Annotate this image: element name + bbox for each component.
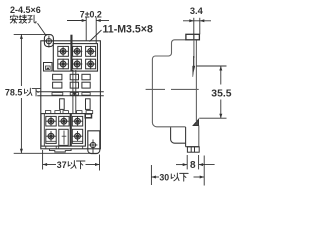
center channel vertical lines xyxy=(72,70,74,114)
screw T2 xyxy=(72,46,82,56)
svg-text:30: 30 xyxy=(159,172,169,182)
spring hook xyxy=(193,66,195,77)
bottom block cell r1c2 xyxy=(59,116,69,126)
center band lines xyxy=(37,91,104,93)
band slot C2 xyxy=(70,93,78,96)
rail hook triangle xyxy=(193,120,198,126)
rail cavity step xyxy=(171,127,186,143)
mid band rect B2 xyxy=(70,82,78,88)
dim 7±0.2 xyxy=(67,20,86,22)
side right edge upper xyxy=(195,40,197,121)
screw T5 xyxy=(72,59,82,69)
screw B1 xyxy=(46,116,56,126)
screw B2 xyxy=(59,116,69,126)
top terminal block outer xyxy=(53,44,97,72)
screw B5 xyxy=(72,131,82,141)
small rects above bottom block xyxy=(45,111,50,114)
mid band rect B3 xyxy=(82,82,90,88)
bottom block cell r1c1 xyxy=(46,116,56,126)
latch black rect xyxy=(85,114,91,118)
screw B4 xyxy=(46,131,56,141)
mid band rect A3 xyxy=(82,74,90,80)
dim 78.5 extension bottom xyxy=(14,152,97,154)
rail cavity right wall xyxy=(185,127,187,147)
mounting hole top-left xyxy=(45,36,54,48)
leader to screw xyxy=(90,30,102,42)
top block release lever thick bar xyxy=(70,35,72,71)
svg-text:78.5: 78.5 xyxy=(5,88,23,98)
装 of 安装孔 xyxy=(19,15,27,24)
mid band rect B1 xyxy=(53,82,62,88)
screw T4 xyxy=(58,59,68,69)
screw T3 xyxy=(85,46,95,56)
slot D1 xyxy=(60,99,65,110)
dim 30 xyxy=(150,165,152,185)
bottom foot xyxy=(50,149,72,152)
top block cell r2c1 xyxy=(58,59,69,69)
slot cross xyxy=(62,135,67,137)
side right edge lower xyxy=(198,126,200,147)
bottom block cell r2c3 xyxy=(72,129,82,143)
下 of 78.5以下 xyxy=(32,89,40,96)
side foot xyxy=(187,147,199,152)
svg-text:11-M3.5×8: 11-M3.5×8 xyxy=(103,23,153,35)
svg-text:37: 37 xyxy=(57,160,67,170)
foot ticks under block xyxy=(45,146,47,149)
mounting tab top-left xyxy=(44,35,53,47)
leader to mounting hole xyxy=(38,23,47,36)
ledge to foot xyxy=(186,146,199,148)
svg-text:2-4.5×6: 2-4.5×6 xyxy=(10,5,41,15)
dim 3.4 xyxy=(183,20,211,22)
top block cell r2c2 xyxy=(73,59,82,69)
mounting hole bottom-right xyxy=(89,140,98,152)
bottom terminal block outer xyxy=(41,114,85,147)
mounting tab bottom-right xyxy=(88,131,100,154)
bottom block cell r2c1 xyxy=(46,129,56,143)
dim 35.5 xyxy=(196,65,226,67)
clip tongue xyxy=(193,34,195,58)
以 of 37以下 xyxy=(68,161,76,169)
band center notch xyxy=(72,92,76,95)
band slot C1 xyxy=(52,93,63,96)
以 of 78.5以下 xyxy=(25,88,32,95)
screw T6 xyxy=(85,59,95,69)
side profile left steps xyxy=(152,40,186,127)
top block cell r2c3 xyxy=(86,59,96,69)
svg-text:35.5: 35.5 xyxy=(211,89,231,100)
relay removal slot xyxy=(59,129,68,145)
dim 78.5 line lower xyxy=(20,98,22,153)
bottom block cell r1c3 xyxy=(72,116,82,126)
band slot C3 xyxy=(82,93,90,96)
front body outline xyxy=(41,41,101,149)
hold-down clip rect xyxy=(186,34,200,40)
slot D2 xyxy=(86,99,91,110)
svg-text:8: 8 xyxy=(190,160,196,171)
dim 78.5 extension top xyxy=(14,33,48,35)
clamp box left strip xyxy=(44,63,53,72)
bottom block thick center bar xyxy=(70,114,72,147)
rail groove line xyxy=(146,88,165,90)
dim 8 xyxy=(186,155,188,169)
screw T1 xyxy=(58,46,68,56)
下 of 37以下 xyxy=(76,161,84,169)
mid band rect A2 xyxy=(70,74,78,80)
dim 37 xyxy=(42,150,44,170)
top block cell r1c1 xyxy=(58,46,69,56)
top block cell r1c3 xyxy=(86,46,96,56)
以 of 30以下 xyxy=(171,173,179,181)
dim 78.5 line upper xyxy=(20,34,22,86)
CJK glyphs drawn as paths (Liberation has no CJK) xyxy=(10,15,188,181)
mid band rect A1 xyxy=(53,74,62,80)
安 of 安装孔 xyxy=(10,15,17,23)
bottom block inner left line xyxy=(43,114,45,147)
screw B3 xyxy=(72,116,82,126)
svg-text:7±0.2: 7±0.2 xyxy=(80,10,102,20)
top block cell r1c2 xyxy=(73,46,82,56)
svg-text:3.4: 3.4 xyxy=(190,6,204,16)
下 of 30以下 xyxy=(180,173,188,181)
孔 of 安装孔 xyxy=(28,15,36,23)
